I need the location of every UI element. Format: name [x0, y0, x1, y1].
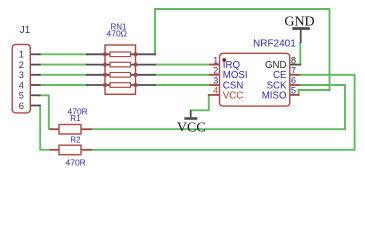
svg-text:J1: J1 [20, 25, 31, 36]
svg-text:470R: 470R [66, 158, 86, 168]
svg-text:1: 1 [213, 55, 218, 65]
svg-text:7: 7 [291, 66, 296, 76]
svg-text:3: 3 [19, 70, 24, 80]
svg-text:3: 3 [213, 76, 218, 86]
svg-text:R2: R2 [70, 136, 81, 145]
svg-text:5: 5 [291, 86, 296, 96]
svg-text:GND: GND [284, 14, 314, 29]
svg-text:8: 8 [291, 55, 296, 65]
svg-text:6: 6 [19, 101, 24, 111]
svg-text:R1: R1 [70, 114, 81, 123]
svg-text:VCC: VCC [177, 121, 206, 136]
svg-text:2: 2 [19, 60, 24, 70]
svg-text:5: 5 [19, 91, 24, 101]
svg-text:VCC: VCC [223, 90, 243, 101]
svg-text:2: 2 [213, 66, 218, 76]
svg-text:4: 4 [213, 86, 218, 96]
svg-text:4: 4 [19, 80, 24, 90]
svg-text:NRF2401: NRF2401 [253, 38, 296, 49]
svg-text:6: 6 [291, 76, 296, 86]
svg-text:470Ω: 470Ω [107, 28, 128, 38]
svg-text:1: 1 [19, 50, 24, 60]
svg-text:MISO: MISO [262, 90, 287, 101]
